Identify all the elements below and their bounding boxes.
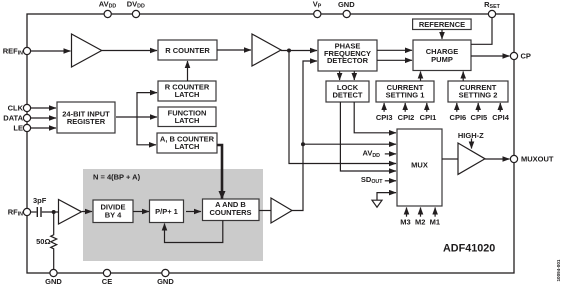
24-bit input register	[57, 102, 115, 133]
svg-text:CPI3: CPI3	[376, 113, 393, 122]
pin CE	[102, 269, 112, 286]
ground symbol	[372, 200, 382, 207]
wire current setting 1 to charge pump	[420, 72, 422, 82]
svg-text:P/P+ 1: P/P+ 1	[155, 207, 178, 216]
wire divide by 4 to prescaler	[133, 211, 149, 213]
buffer U4 N output	[271, 198, 292, 223]
charge pump	[413, 40, 471, 71]
wire AVDD to MUX	[385, 153, 396, 155]
wire A and B counters to buffer	[259, 210, 271, 212]
resistor R term 50 ohm	[36, 212, 57, 269]
wire buffer to PFD	[281, 50, 317, 52]
pin RSET	[484, 0, 500, 18]
wire lock detect to MUX input 1	[354, 102, 396, 133]
svg-text:REFERENCE: REFERENCE	[419, 20, 465, 29]
node RF junction	[52, 210, 56, 214]
svg-text:LATCH: LATCH	[175, 90, 200, 99]
svg-text:DETECTOR: DETECTOR	[327, 56, 369, 65]
pin REFIN	[3, 47, 31, 57]
svg-text:GND: GND	[45, 277, 62, 286]
pin CLK	[8, 104, 31, 113]
wire LE to register	[31, 127, 56, 129]
wire PFD to charge pump upper	[377, 49, 412, 51]
svg-text:SETTING 2: SETTING 2	[459, 91, 498, 100]
svg-text:CPI4: CPI4	[492, 113, 510, 122]
buffer U1 reference input	[72, 34, 102, 67]
buffer U3 RF input	[59, 200, 82, 225]
svg-text:CE: CE	[102, 277, 112, 286]
svg-text:GND: GND	[338, 0, 355, 9]
svg-text:MUX: MUX	[411, 160, 428, 169]
pin DVDD	[127, 0, 145, 18]
wire R counter to buffer	[217, 49, 251, 51]
svg-text:50Ω: 50Ω	[36, 237, 50, 246]
svg-text:M2: M2	[415, 218, 425, 227]
current setting 1	[376, 81, 434, 102]
wire feedback A and B counters to prescaler	[165, 221, 223, 243]
wire prescaler to A and B counters	[186, 211, 201, 213]
pin CP	[510, 52, 531, 61]
svg-text:3pF: 3pF	[33, 196, 47, 205]
svg-text:LATCH: LATCH	[175, 116, 200, 125]
pin VP	[313, 0, 322, 18]
pin GND bottom-mid	[157, 269, 174, 286]
wire R counter latch to R counter	[187, 61, 189, 81]
wire capacitor to buffer	[42, 211, 60, 213]
wire CPI6 arrow	[456, 103, 458, 112]
wire high-z arrow	[471, 139, 473, 149]
current setting 2	[448, 81, 508, 102]
svg-text:N = 4(BP + A): N = 4(BP + A)	[93, 172, 141, 181]
buffer U2 after R counter	[252, 34, 281, 66]
wire reference to charge pump	[441, 30, 443, 40]
wire buffer to divide by 4	[82, 211, 92, 213]
svg-text:R COUNTER: R COUNTER	[165, 46, 210, 55]
wire SDOUT to MUX	[385, 180, 396, 182]
svg-text:LATCH: LATCH	[175, 142, 200, 151]
prescaler P/P+1	[150, 200, 184, 223]
wire M2 arrow	[420, 208, 422, 217]
svg-text:DETECT: DETECT	[333, 91, 363, 100]
wire M3 arrow	[406, 208, 408, 217]
node N junction	[301, 142, 305, 146]
A B counter latch	[157, 133, 217, 153]
wire N junction to MUX	[303, 143, 396, 145]
svg-text:CPI1: CPI1	[420, 113, 437, 122]
wire MUX to output buffer	[442, 158, 458, 160]
wire ground to MUX	[377, 193, 396, 200]
function latch	[158, 107, 216, 127]
wire lock detect to MUX input 5	[340, 102, 396, 171]
wire RSET to charge pump	[471, 18, 492, 45]
wire register to function latch	[116, 116, 157, 118]
wire DATA to register	[31, 117, 56, 119]
node junction after buffer U2	[287, 49, 291, 53]
wire branch to R counter latch	[136, 92, 157, 94]
wire CPI1 arrow	[426, 103, 428, 112]
capacitor C1 3pF	[37, 207, 41, 217]
shaded N-divider region	[83, 169, 263, 261]
wire A B counter latch to A and B counters (thick)	[217, 145, 222, 199]
svg-text:CPI2: CPI2	[398, 113, 415, 122]
phase frequency detector	[318, 40, 377, 71]
svg-text:10094-001: 10094-001	[556, 259, 561, 281]
svg-text:M1: M1	[430, 218, 440, 227]
svg-text:CP: CP	[521, 52, 531, 61]
svg-text:REGISTER: REGISTER	[67, 117, 106, 126]
chip outer border	[27, 14, 514, 273]
svg-text:LE: LE	[13, 124, 23, 133]
wire RFIN to capacitor	[31, 211, 37, 213]
svg-text:MUXOUT: MUXOUT	[521, 155, 554, 164]
svg-text:ADF41020: ADF41020	[443, 243, 495, 255]
wire current setting 2 to charge pump	[462, 72, 464, 82]
wire buffer to MUXOUT pin	[485, 158, 510, 160]
svg-text:GND: GND	[157, 277, 174, 286]
lock detect	[326, 81, 369, 102]
pin RFIN	[8, 208, 31, 218]
svg-text:SETTING 1: SETTING 1	[386, 91, 425, 100]
wire junction down to MUX input	[289, 51, 396, 164]
wire PFD to lock detect right	[353, 71, 355, 80]
svg-text:COUNTERS: COUNTERS	[209, 208, 251, 217]
wire M1 arrow	[434, 208, 436, 217]
wire REFIN to input buffer	[31, 50, 71, 52]
svg-text:M3: M3	[400, 218, 410, 227]
buffer U5 muxout	[458, 143, 485, 174]
R counter	[158, 40, 217, 60]
A and B counters	[203, 199, 260, 221]
wire branch to A B counter latch	[136, 144, 156, 146]
wire PFD to charge pump lower	[377, 59, 412, 61]
svg-text:CLK: CLK	[8, 104, 24, 113]
wire CPI2 arrow	[404, 103, 406, 112]
R counter latch	[158, 81, 216, 101]
svg-text:BY 4: BY 4	[105, 211, 122, 220]
wire CPI5 arrow	[477, 103, 479, 112]
pin AVDD	[99, 0, 117, 18]
wire buffer to R counter	[102, 50, 157, 52]
pin GND bottom-left	[45, 269, 62, 286]
pin LE	[13, 124, 30, 133]
wire charge pump to CP pin	[471, 55, 510, 57]
wire PFD to lock detect left	[339, 71, 341, 80]
pin MUXOUT	[510, 155, 554, 164]
wire register branch vertical	[136, 93, 138, 145]
wire CLK to register	[31, 107, 56, 109]
MUX block	[397, 129, 442, 206]
wire CPI4 arrow	[499, 103, 501, 112]
wire N output to PFD	[292, 61, 317, 211]
svg-text:DATA: DATA	[3, 114, 23, 123]
divide by 4 block	[93, 200, 133, 223]
svg-text:PUMP: PUMP	[431, 55, 453, 64]
pin GND top	[338, 0, 355, 18]
reference block	[413, 19, 472, 30]
svg-text:CPI5: CPI5	[471, 113, 488, 122]
svg-text:CPI6: CPI6	[450, 113, 467, 122]
pin DATA	[3, 114, 30, 123]
wire CPI3 arrow	[383, 103, 385, 112]
